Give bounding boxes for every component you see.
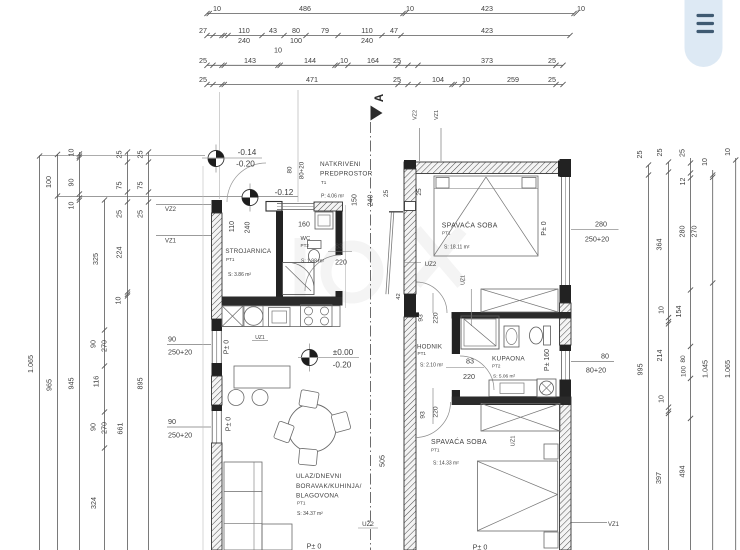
svg-text:SPAVAĆA SOBA: SPAVAĆA SOBA — [442, 221, 498, 230]
island stool 1 — [228, 390, 244, 406]
svg-text:373: 373 — [481, 56, 493, 65]
svg-text:93: 93 — [418, 314, 425, 322]
svg-text:ULAZ/DNEVNI: ULAZ/DNEVNI — [296, 473, 342, 480]
right wall cap top — [560, 159, 572, 177]
strojarnica door arc — [227, 163, 266, 202]
svg-text:364: 364 — [655, 239, 664, 251]
wc door arc — [305, 255, 341, 291]
svg-text:110: 110 — [238, 26, 249, 35]
svg-text:25: 25 — [115, 151, 124, 159]
svg-text:-0.20: -0.20 — [333, 361, 352, 370]
svg-text:144: 144 — [304, 56, 316, 65]
svg-text:-0.12: -0.12 — [275, 188, 294, 197]
bed bedroom2 — [477, 461, 557, 531]
right building left wall lower — [404, 317, 416, 550]
svg-text:UŽ2: UŽ2 — [362, 520, 374, 528]
menu button pill — [685, 0, 723, 67]
svg-text:BORAVAK/KUHINJA/: BORAVAK/KUHINJA/ — [296, 483, 362, 490]
bathroom toilet — [544, 326, 551, 345]
menu icon lines — [697, 14, 715, 17]
svg-text:10: 10 — [116, 297, 123, 305]
wc shower — [283, 263, 315, 295]
svg-text:270: 270 — [100, 340, 109, 352]
svg-text:S: 5.06 m²: S: 5.06 m² — [493, 374, 516, 380]
shower tray — [461, 316, 499, 349]
bathroom door arc — [460, 356, 494, 390]
svg-text:25: 25 — [199, 75, 207, 84]
left wall hatched mid — [212, 376, 223, 405]
bathroom bottom wall — [452, 397, 571, 406]
dimension row 2 — [207, 35, 570, 37]
svg-text:150: 150 — [352, 194, 359, 206]
svg-text:NATKRIVENI: NATKRIVENI — [320, 161, 361, 168]
svg-text:12: 12 — [680, 178, 687, 186]
svg-text:-0.20: -0.20 — [236, 160, 255, 169]
svg-text:240: 240 — [245, 222, 252, 234]
bathroom left wall lower — [452, 390, 460, 405]
dimension row 3 — [207, 64, 563, 66]
svg-text:25: 25 — [548, 75, 556, 84]
svg-text:325: 325 — [91, 253, 100, 265]
svg-text:945: 945 — [67, 378, 76, 390]
wc washbasin — [315, 212, 333, 229]
svg-text:895: 895 — [136, 378, 145, 390]
svg-text:10: 10 — [577, 4, 585, 13]
svg-text:220: 220 — [463, 372, 475, 381]
nightstand bedroom2 bottom — [544, 532, 558, 548]
svg-text:90: 90 — [67, 179, 76, 187]
svg-text:324: 324 — [89, 497, 98, 509]
svg-text:80: 80 — [680, 355, 687, 363]
svg-text:116: 116 — [92, 376, 101, 387]
svg-text:240: 240 — [238, 36, 250, 45]
bedroom2 door arc — [415, 402, 451, 438]
porch edge line — [345, 205, 347, 308]
svg-text:80+20: 80+20 — [299, 161, 306, 179]
svg-text:93: 93 — [420, 411, 427, 419]
svg-text:143: 143 — [244, 56, 256, 65]
svg-text:110: 110 — [361, 26, 372, 35]
left dim line 945 — [78, 152, 80, 550]
bathroom left wall upper — [452, 313, 460, 354]
svg-text:43: 43 — [269, 26, 277, 35]
svg-text:PT2: PT2 — [492, 364, 501, 369]
wc window top — [277, 203, 314, 205]
right dim line 280/154/494 — [690, 158, 692, 550]
right wall black 379.5 — [560, 380, 572, 398]
svg-text:S: 18.11 m²: S: 18.11 m² — [444, 245, 470, 251]
svg-text:25: 25 — [416, 188, 423, 196]
svg-text:25: 25 — [136, 210, 145, 218]
svg-text:25: 25 — [678, 149, 687, 157]
dimension row 4 — [207, 84, 563, 86]
svg-text:10: 10 — [462, 75, 470, 84]
svg-text:T1: T1 — [321, 180, 327, 185]
svg-text:25: 25 — [136, 151, 145, 159]
left wall hatched upper — [212, 213, 223, 319]
strojarnica door frame post — [266, 202, 282, 212]
svg-text:10: 10 — [213, 4, 221, 13]
svg-text:270: 270 — [690, 226, 699, 238]
svg-text:25: 25 — [655, 149, 664, 157]
label VZ1 top — [440, 128, 442, 161]
svg-text:42: 42 — [396, 293, 402, 299]
kitchen stove — [301, 305, 333, 327]
label VZ1 bottom right — [571, 522, 607, 524]
svg-text:STROJARNICA: STROJARNICA — [225, 248, 272, 255]
right wall hatched 303-345 — [560, 303, 572, 345]
svg-text:486: 486 — [299, 4, 311, 13]
svg-text:250+20: 250+20 — [168, 431, 192, 440]
kitchen counter outline — [222, 306, 340, 327]
svg-text:P± 160: P± 160 — [544, 349, 551, 371]
svg-text:90: 90 — [168, 335, 176, 344]
svg-text:S: 14.33 m²: S: 14.33 m² — [433, 461, 459, 467]
bathroom window right — [561, 351, 563, 380]
right wall hatched lower — [560, 397, 572, 550]
svg-text:PT1: PT1 — [442, 231, 451, 236]
svg-text:HODNIK: HODNIK — [417, 344, 443, 351]
bedroom1 door leaf lines — [432, 293, 434, 313]
svg-text:PT1: PT1 — [226, 257, 235, 262]
left wall window 2 — [211, 411, 213, 443]
spot level +0.00/-0.20 — [309, 344, 311, 372]
svg-text:80: 80 — [287, 166, 294, 173]
faint watermark — [300, 230, 462, 306]
svg-text:104: 104 — [432, 75, 444, 84]
svg-text:995: 995 — [636, 364, 645, 376]
kitchen dishwasher with X — [222, 306, 243, 327]
right dim line 1.065 — [735, 158, 737, 550]
svg-text:25: 25 — [548, 56, 556, 65]
svg-text:505: 505 — [378, 455, 387, 467]
strojarnica right wall — [276, 211, 283, 297]
svg-text:79: 79 — [321, 26, 329, 35]
left wall cap top — [212, 200, 223, 213]
svg-text:PT1: PT1 — [297, 501, 306, 506]
right building left wall L cap 306 — [404, 306, 416, 317]
bedroom1 top wall — [404, 162, 570, 174]
svg-text:1.065: 1.065 — [723, 360, 732, 378]
svg-text:S: 1.98 m²: S: 1.98 m² — [301, 259, 324, 265]
left dim line 895 — [148, 152, 150, 550]
svg-text:27: 27 — [199, 26, 207, 35]
svg-text:220: 220 — [433, 406, 440, 418]
svg-text:164: 164 — [367, 56, 379, 65]
svg-text:80: 80 — [292, 26, 300, 35]
bathroom vanity — [489, 380, 537, 397]
left dim line 325/116/324 — [104, 200, 106, 550]
window label 280/250+20 — [571, 229, 619, 231]
left wall cap at 405 — [212, 405, 223, 411]
svg-text:KUPAONA: KUPAONA — [492, 356, 525, 363]
svg-text:90: 90 — [168, 417, 176, 426]
svg-text:10: 10 — [274, 46, 282, 55]
svg-text:VZ1: VZ1 — [434, 110, 440, 120]
svg-text:90: 90 — [89, 340, 98, 348]
svg-text:100: 100 — [681, 366, 688, 377]
entry door frame post — [405, 202, 416, 211]
island stool 2 — [252, 390, 268, 406]
bedroom1 top wall cap left — [404, 160, 416, 176]
entry door leaf — [386, 212, 394, 294]
svg-text:P± 0: P± 0 — [473, 543, 488, 550]
bathroom top wall — [452, 312, 572, 319]
nightstand bedroom2 top — [544, 444, 558, 459]
svg-text:25: 25 — [635, 151, 644, 159]
svg-text:1.045: 1.045 — [701, 360, 710, 378]
svg-text:P± 0: P± 0 — [307, 542, 322, 550]
svg-text:10: 10 — [340, 56, 348, 65]
section line (dash-dot) — [370, 122, 372, 550]
svg-text:A: A — [374, 94, 386, 102]
window label 90/250+20 lower — [167, 426, 211, 428]
svg-text:UZ2: UZ2 — [425, 261, 437, 268]
svg-text:83: 83 — [335, 244, 343, 251]
svg-text:10: 10 — [702, 158, 709, 166]
window label 90/250+20 upper — [167, 344, 211, 346]
svg-text:P± 0: P± 0 — [226, 417, 233, 431]
svg-text:250+20: 250+20 — [168, 348, 192, 357]
wc toilet — [308, 241, 322, 249]
svg-text:154: 154 — [674, 306, 683, 318]
svg-text:10: 10 — [659, 395, 666, 403]
svg-text:75: 75 — [136, 182, 145, 190]
svg-text:224: 224 — [115, 247, 124, 259]
left wall hatched lower — [212, 443, 223, 550]
svg-text:P± 0: P± 0 — [541, 221, 548, 235]
svg-text:90: 90 — [89, 423, 98, 431]
svg-text:PT2: PT2 — [301, 243, 310, 248]
facade line left — [202, 166, 204, 550]
svg-text:423: 423 — [481, 26, 493, 35]
svg-text:220: 220 — [335, 260, 347, 267]
right building left wall upper — [404, 169, 416, 294]
wc right wall — [336, 211, 343, 255]
svg-text:VZ2: VZ2 — [413, 110, 419, 120]
svg-text:471: 471 — [306, 75, 318, 84]
svg-text:280: 280 — [678, 226, 687, 238]
svg-text:PT1: PT1 — [418, 351, 427, 356]
svg-text:83: 83 — [466, 357, 474, 366]
svg-text:47: 47 — [390, 26, 398, 35]
svg-text:80: 80 — [601, 352, 609, 361]
svg-text:PREDPROSTOR: PREDPROSTOR — [320, 171, 373, 178]
svg-text:25: 25 — [383, 190, 390, 198]
svg-text:UZ1: UZ1 — [255, 335, 265, 341]
svg-text:25: 25 — [199, 56, 207, 65]
kitchen sink — [244, 307, 263, 326]
svg-text:10: 10 — [725, 148, 732, 156]
label VZ1 — [156, 235, 211, 237]
svg-text:10: 10 — [69, 202, 76, 210]
left wall window 1 — [211, 331, 213, 363]
right wall cap mid — [560, 285, 572, 303]
svg-text:S: 34.37 m²: S: 34.37 m² — [297, 511, 323, 517]
svg-text:UZ1: UZ1 — [461, 275, 467, 285]
svg-text:SPAVAĆA SOBA: SPAVAĆA SOBA — [431, 437, 487, 446]
right dim line 364/214/397 — [668, 162, 670, 550]
svg-text:10: 10 — [69, 149, 76, 157]
svg-text:259: 259 — [507, 75, 519, 84]
spot level -0.14/-0.20 — [215, 145, 217, 173]
svg-text:240: 240 — [368, 195, 375, 207]
svg-text:75: 75 — [115, 182, 124, 190]
svg-text:160: 160 — [298, 222, 310, 229]
svg-text:100: 100 — [290, 36, 302, 45]
strojarnica interior wall bottom — [222, 297, 343, 306]
left dim line 965 — [57, 154, 59, 550]
svg-text:1.065: 1.065 — [26, 355, 35, 373]
label VZ2 top — [419, 128, 421, 161]
left wall cap at 363 — [212, 363, 223, 376]
svg-text:280: 280 — [595, 220, 607, 229]
dining table — [288, 404, 336, 452]
svg-text:BLAGOVONA: BLAGOVONA — [296, 493, 339, 500]
spot level -0.12 — [249, 184, 251, 212]
svg-text:397: 397 — [654, 472, 663, 484]
svg-text:PT1: PT1 — [431, 448, 440, 453]
svg-text:110: 110 — [229, 221, 236, 232]
washing machine — [537, 379, 556, 397]
wc top wall — [314, 202, 343, 211]
dining chairs — [299, 390, 320, 409]
wardrobe bedroom2 — [481, 404, 560, 432]
bathroom sink — [504, 326, 519, 347]
left wall cap at 319 — [212, 319, 223, 331]
wardrobe bedroom1 — [481, 289, 558, 312]
sofa — [224, 462, 262, 550]
svg-text:P± 0: P± 0 — [224, 340, 231, 354]
left dim line 1.065 — [39, 156, 41, 550]
left dim line 224/661 — [127, 152, 129, 550]
right dim line 995 — [648, 165, 650, 550]
bed1 pillow right — [522, 178, 536, 189]
svg-text:661: 661 — [116, 423, 125, 435]
svg-text:100: 100 — [44, 176, 53, 188]
svg-text:-0.14: -0.14 — [238, 148, 257, 157]
svg-text:P: 4.06 m²: P: 4.06 m² — [321, 194, 344, 200]
svg-text:25: 25 — [115, 210, 124, 218]
right dim line 270/1.045 — [712, 170, 714, 550]
kitchen island — [234, 366, 290, 388]
svg-text:VZ1: VZ1 — [165, 239, 177, 245]
svg-text:25: 25 — [393, 75, 401, 84]
svg-text:VZ2: VZ2 — [165, 207, 177, 213]
svg-text:VZ1: VZ1 — [608, 522, 620, 528]
bedroom1 top wall cap right — [558, 161, 571, 177]
window label 80/80+20 — [571, 361, 614, 363]
svg-text:80+20: 80+20 — [586, 366, 606, 375]
svg-text:25: 25 — [393, 56, 401, 65]
svg-text:423: 423 — [481, 4, 493, 13]
svg-text:UZ1: UZ1 — [511, 436, 517, 447]
svg-text:±0.00: ±0.00 — [333, 348, 354, 357]
svg-text:S: 2.10 m²: S: 2.10 m² — [420, 363, 443, 369]
svg-text:220: 220 — [433, 312, 440, 324]
svg-text:S: 3.86 m²: S: 3.86 m² — [228, 272, 251, 278]
svg-text:WC: WC — [301, 236, 311, 242]
right building left wall black 294 — [404, 294, 416, 306]
bed1 pillow left — [436, 178, 449, 189]
hodnik door arc from living — [416, 282, 447, 313]
bedroom1 window right — [561, 177, 563, 285]
svg-text:270: 270 — [100, 422, 109, 434]
label VZ2 — [156, 204, 211, 206]
svg-text:494: 494 — [678, 466, 687, 478]
svg-text:10: 10 — [659, 306, 666, 314]
kitchen oven — [269, 308, 291, 327]
dimension row 1 (top) — [207, 13, 574, 15]
svg-text:250+20: 250+20 — [585, 235, 609, 244]
svg-text:965: 965 — [45, 379, 54, 391]
right wall black 345 — [560, 345, 572, 351]
svg-text:240: 240 — [361, 36, 373, 45]
left extension lines — [39, 155, 205, 157]
bed bedroom1 — [434, 176, 538, 256]
svg-text:214: 214 — [655, 350, 664, 362]
svg-text:10: 10 — [406, 4, 414, 13]
